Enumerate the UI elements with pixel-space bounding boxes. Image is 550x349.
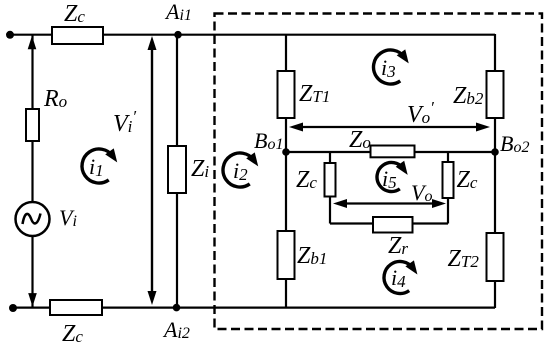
- resistor Zc inner-left: [325, 163, 336, 197]
- node terminal top-left: [6, 31, 14, 39]
- node Ai1: [174, 31, 182, 39]
- wire bottom horizontal: [13, 307, 495, 309]
- loop arrow i1: [82, 148, 121, 183]
- resistor Ro: [26, 109, 39, 141]
- arrowhead down on source branch bottom: [28, 293, 37, 307]
- resistor Zo: [371, 146, 415, 158]
- source Vi circle: [16, 202, 50, 236]
- wire Zr horizontal: [330, 222, 448, 224]
- resistor Zr: [373, 217, 413, 233]
- wire Bo1-Bo2: [286, 151, 495, 153]
- wire left source branch: [31, 34, 33, 307]
- node Bo2: [491, 148, 499, 156]
- node Ai2: [173, 304, 181, 312]
- resistor ZT1: [278, 71, 295, 118]
- measurement arrow Vi': [148, 36, 157, 305]
- measurement arrow Vo': [289, 123, 490, 132]
- resistor Zc bottom: [50, 300, 102, 315]
- node Bo1: [282, 148, 290, 156]
- wire inner right Zc branch: [447, 152, 449, 224]
- node terminal bottom-left: [9, 304, 17, 312]
- loop arrow i3: [374, 49, 413, 84]
- wire ZT1-Zb1 column: [285, 34, 287, 307]
- wire inner left Zc branch: [329, 152, 331, 224]
- resistor Zb1: [278, 231, 295, 279]
- resistor ZT2: [487, 233, 504, 281]
- arrowhead up on source branch top: [28, 36, 37, 50]
- resistor Zb2: [487, 71, 504, 118]
- wire Zb2-ZT2 column: [494, 34, 496, 308]
- wire top horizontal: [10, 34, 495, 36]
- resistor Zc inner-right: [443, 162, 454, 198]
- source sine symbol: [23, 214, 41, 225]
- dashed two-port box: [215, 14, 543, 330]
- svg-text:Vo′: Vo′: [407, 98, 434, 128]
- measurement arrow Vo: [333, 199, 446, 208]
- resistor Zc top: [52, 27, 103, 44]
- loop arrow i2: [223, 152, 262, 187]
- resistor Zi: [168, 146, 186, 193]
- loop arrow i4: [384, 260, 422, 293]
- wire Zi branch: [176, 34, 178, 308]
- loop arrow i5: [377, 161, 412, 192]
